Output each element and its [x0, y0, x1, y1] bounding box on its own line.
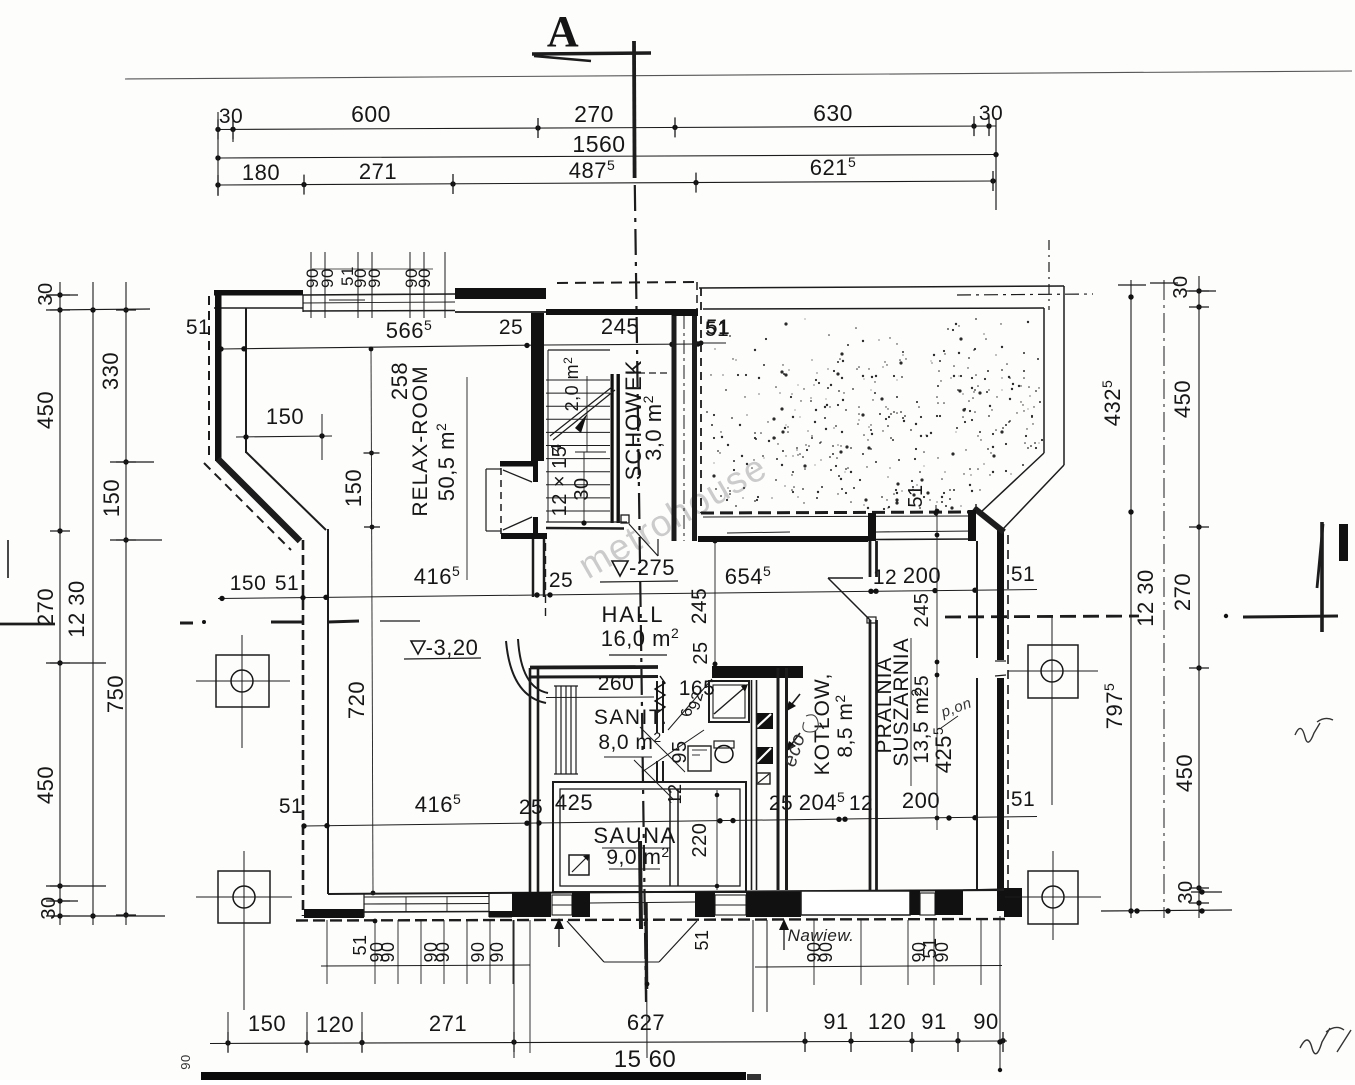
svg-text:12: 12 — [665, 783, 685, 804]
svg-text:KOTŁOW,: KOTŁOW, — [811, 673, 834, 776]
svg-text:A: A — [547, 7, 579, 56]
kotlow/pralnia wall — [869, 541, 872, 577]
svg-text:245: 245 — [688, 588, 711, 625]
svg-text:3,0 m2: 3,0 m2 — [640, 395, 666, 461]
svg-text:270: 270 — [33, 588, 58, 626]
stair dim line 30 — [586, 376, 588, 452]
258/150/720 vertical dim line — [371, 347, 373, 893]
svg-text:150: 150 — [266, 404, 304, 429]
svg-text:95: 95 — [669, 740, 691, 763]
654.5 / 150-51 / 416.5 long dim line y~595 — [218, 590, 1037, 599]
svg-text:25: 25 — [690, 641, 712, 664]
svg-text:90: 90 — [433, 941, 453, 962]
svg-text:51: 51 — [705, 318, 729, 341]
sauna box — [553, 782, 746, 892]
stair rails — [611, 374, 614, 523]
right connector ticks — [1118, 284, 1146, 286]
bottom dim row 150/120/271/627/91/120/91/90 — [210, 1041, 1007, 1044]
svg-text:51: 51 — [186, 316, 210, 339]
sanit left radiator — [555, 686, 557, 774]
svg-text:4: 4 — [548, 444, 565, 453]
svg-text:30: 30 — [571, 477, 593, 500]
svg-text:30: 30 — [35, 282, 57, 305]
svg-text:450: 450 — [1172, 754, 1197, 792]
svg-text:13,5 m2: 13,5 m2 — [908, 688, 933, 764]
svg-text:120: 120 — [868, 1009, 906, 1034]
svg-text:150: 150 — [248, 1011, 286, 1036]
svg-text:91: 91 — [921, 1009, 946, 1034]
left window sub dim — [321, 965, 530, 966]
svg-text:2,0 m2: 2,0 m2 — [561, 357, 582, 412]
svg-text:200: 200 — [903, 563, 941, 588]
top dimension row 30/600/270/630/30 — [216, 126, 996, 130]
column top-right — [1028, 645, 1078, 698]
svg-text:RELAX-ROOM: RELAX-ROOM — [409, 365, 432, 516]
bottom opening — [801, 891, 910, 915]
svg-text:150: 150 — [341, 469, 366, 507]
terrace top dashes to section — [557, 282, 697, 283]
svg-text:450: 450 — [33, 766, 58, 804]
right dim line (432.5 / 797.5) — [1130, 280, 1132, 918]
svg-text:90: 90 — [468, 941, 488, 962]
shower — [709, 681, 749, 722]
terrace stipple — [706, 318, 1043, 510]
axis line B-B left dashes — [0, 623, 55, 626]
566.5 dim line — [221, 345, 546, 349]
bottom wall inner line — [328, 890, 1005, 894]
top-right bevel corner — [974, 508, 1004, 532]
svg-text:15 60: 15 60 — [614, 1046, 677, 1073]
right dim line outer (30/450/270/450/30) — [1198, 276, 1200, 918]
svg-text:90: 90 — [318, 268, 337, 288]
handwritten squiggles right — [1295, 718, 1333, 742]
svg-text:51: 51 — [1011, 563, 1035, 586]
right dim line middle 12 30 — [1163, 280, 1165, 918]
bottom window left — [364, 896, 489, 899]
svg-text:12 × 15: 12 × 15 — [549, 446, 571, 517]
svg-text:51: 51 — [275, 572, 299, 595]
kotlow corridor wall — [751, 680, 753, 890]
column top-left — [216, 655, 269, 707]
stairs treads — [548, 349, 610, 351]
svg-text:150: 150 — [230, 572, 267, 595]
level mark -3,20 — [411, 641, 425, 654]
hall top wall under terrace — [698, 536, 868, 542]
svg-text:25: 25 — [912, 675, 933, 697]
svg-text:90: 90 — [932, 941, 952, 962]
stair block left wall — [531, 313, 544, 461]
svg-text:720: 720 — [344, 681, 369, 719]
svg-text:91: 91 — [823, 1009, 848, 1034]
flue arcs — [506, 641, 546, 703]
funnels below sauna — [567, 921, 604, 962]
svg-text:30: 30 — [979, 102, 1003, 125]
svg-text:50,5 m2: 50,5 m2 — [433, 423, 459, 502]
svg-text:630: 630 — [813, 100, 853, 126]
shafts black squares — [756, 713, 773, 729]
left exterior wall lower (dashed outer + inner line) — [302, 540, 305, 916]
top dimension row 1560 — [218, 155, 996, 159]
svg-text:270: 270 — [574, 101, 614, 127]
radiator zigzag — [655, 676, 665, 713]
top wall left segment — [214, 290, 303, 296]
svg-text:627: 627 — [627, 1010, 665, 1035]
long dim line y~820 — [304, 817, 1037, 827]
top wall solid band — [455, 288, 546, 299]
right sub dim — [755, 966, 1002, 968]
sauna block left wall — [529, 668, 532, 894]
245/25 vertical dim x715 — [714, 541, 716, 676]
left wall diagonal — [218, 459, 300, 541]
svg-text:-3,20: -3,20 — [426, 635, 479, 660]
svg-text:51: 51 — [1011, 788, 1035, 811]
svg-text:260: 260 — [598, 672, 635, 695]
section line A-A vertical — [632, 41, 636, 178]
svg-text:220: 220 — [689, 823, 711, 858]
svg-text:HALL: HALL — [601, 602, 664, 627]
bottom verticals — [513, 920, 515, 1058]
svg-text:51: 51 — [279, 795, 303, 818]
bottom wall piers — [512, 892, 551, 917]
section mark B right edge — [1320, 522, 1324, 632]
svg-text:245: 245 — [911, 593, 933, 628]
stair block right wall / terrace left pier — [672, 315, 677, 541]
svg-text:25: 25 — [519, 796, 543, 819]
svg-text:90: 90 — [487, 941, 507, 962]
svg-text:245: 245 — [601, 314, 639, 339]
svg-text:450: 450 — [33, 391, 58, 429]
left dim line middle 12 30 — [92, 282, 94, 925]
svg-text:271: 271 — [359, 159, 397, 184]
shaft arrows — [788, 694, 800, 709]
svg-text:600: 600 — [351, 101, 391, 127]
svg-text:8,5 m2: 8,5 m2 — [832, 694, 857, 757]
top dim vertical guides — [217, 112, 219, 196]
svg-text:25: 25 — [769, 792, 793, 815]
svg-text:180: 180 — [242, 160, 280, 185]
svg-text:12 30: 12 30 — [64, 580, 89, 638]
wc + vanity — [688, 746, 711, 771]
SCHOWEK labels — [627, 372, 671, 374]
svg-text:330: 330 — [98, 352, 123, 390]
right exterior wall — [997, 530, 1004, 660]
axis line B-B right — [945, 616, 1139, 617]
stair bottom edge — [546, 521, 627, 523]
svg-text:25: 25 — [499, 316, 523, 339]
kotlow left wall — [777, 668, 780, 890]
245 dim stairs — [546, 344, 698, 345]
svg-text:90: 90 — [178, 1054, 193, 1069]
left exterior wall upper — [215, 290, 222, 461]
svg-text:51: 51 — [692, 929, 712, 950]
window mullion ticks + 90 labels — [310, 252, 312, 318]
svg-text:150: 150 — [99, 479, 124, 517]
svg-text:270: 270 — [1170, 573, 1195, 611]
left edge partial section line — [7, 540, 9, 578]
sanit partition — [656, 681, 658, 733]
terrace outline — [699, 286, 1064, 288]
svg-text:450: 450 — [1170, 380, 1195, 418]
svg-text:90: 90 — [415, 268, 434, 288]
top-right connectors — [1048, 240, 1050, 310]
svg-text:25: 25 — [549, 569, 573, 592]
door swing 12/200 — [828, 577, 863, 579]
bottom heavy bar — [201, 1072, 746, 1081]
svg-text:750: 750 — [103, 675, 128, 713]
left connector ticks — [46, 294, 78, 296]
svg-text:-275: -275 — [629, 555, 675, 580]
svg-text:90: 90 — [378, 941, 398, 962]
stair block top wall — [546, 309, 698, 315]
level mark -275 — [612, 561, 628, 576]
sauna stove — [569, 855, 589, 875]
svg-text:16,0 m2: 16,0 m2 — [601, 625, 680, 651]
260 dim — [546, 696, 654, 699]
column bottom-right — [1028, 871, 1078, 924]
svg-text:425: 425 — [555, 790, 593, 815]
left dim line inner (330/150/750) — [125, 282, 127, 925]
svg-text:12 30: 12 30 — [1133, 569, 1158, 627]
svg-text:1560: 1560 — [572, 131, 625, 157]
entrance niche — [486, 468, 501, 470]
stair direction arrow — [550, 387, 612, 436]
top wall window — [303, 294, 455, 295]
top dimension row 180/271/487.5/621.5 — [218, 181, 993, 185]
svg-text:200: 200 — [902, 788, 940, 813]
svg-text:90: 90 — [365, 268, 384, 288]
svg-text:271: 271 — [429, 1011, 467, 1036]
svg-text:120: 120 — [316, 1012, 354, 1037]
svg-text:30: 30 — [219, 105, 243, 128]
column bottom-left — [218, 871, 270, 923]
svg-text:90: 90 — [973, 1009, 998, 1034]
top sheet border line — [125, 71, 1352, 79]
bottom outer dashed insulation — [296, 919, 1006, 921]
bottom wall outer segments — [304, 909, 364, 918]
left dim line outer (30/450/270/450/30) — [59, 282, 61, 925]
hall/sanit wall — [530, 665, 658, 669]
schowek door swing — [629, 524, 658, 556]
245/25/425.5 vertical dim x937 — [936, 511, 938, 830]
150 dim top — [236, 436, 332, 437]
svg-text:8,0 m2: 8,0 m2 — [598, 729, 661, 754]
svg-text:30: 30 — [1170, 275, 1192, 298]
svg-text:Nawiew.: Nawiew. — [788, 926, 855, 945]
